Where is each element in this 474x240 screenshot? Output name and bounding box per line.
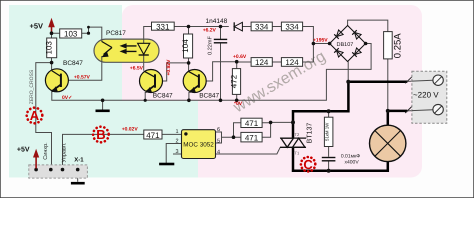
svg-text:1n4148: 1n4148	[206, 18, 228, 25]
svg-text:*0V: *0V	[234, 101, 243, 107]
svg-text:+0.92V: +0.92V	[166, 59, 172, 76]
svg-text:0.22mF: 0.22mF	[208, 36, 214, 55]
svg-text:B: B	[96, 127, 105, 142]
svg-text:T1: T1	[295, 151, 300, 156]
svg-text:+6.5V: +6.5V	[130, 65, 144, 71]
svg-text:+5V: +5V	[17, 147, 30, 154]
svg-text:BC847: BC847	[63, 60, 83, 67]
svg-text:BC847: BC847	[153, 93, 173, 100]
svg-text:T2: T2	[295, 132, 300, 137]
svg-text:+6.2V: +6.2V	[203, 28, 217, 34]
svg-text:51кМ 1W: 51кМ 1W	[325, 122, 330, 141]
svg-text:Синхр.: Синхр.	[43, 142, 49, 160]
svg-text:A: A	[30, 108, 40, 123]
svg-text:Управл.: Управл.	[62, 142, 68, 162]
svg-text:104: 104	[181, 39, 190, 53]
svg-text:х400V: х400V	[345, 159, 360, 165]
svg-text:+5V: +5V	[30, 22, 44, 31]
svg-text:BT137: BT137	[307, 123, 314, 144]
svg-text:5: 5	[217, 139, 220, 145]
svg-text:103: 103	[45, 41, 54, 55]
svg-text:103: 103	[64, 29, 78, 38]
svg-text:471: 471	[245, 119, 259, 128]
svg-text:+0.6V: +0.6V	[233, 54, 247, 60]
svg-text:2: 2	[175, 139, 178, 145]
svg-text:0V✓: 0V✓	[62, 95, 72, 101]
svg-text:ZERO_CROSS: ZERO_CROSS	[29, 69, 35, 104]
svg-text:X-1: X-1	[74, 156, 84, 163]
svg-text:BC847: BC847	[199, 93, 219, 100]
svg-text:DB107: DB107	[337, 42, 354, 48]
svg-text:331: 331	[156, 22, 170, 31]
svg-text:PC817: PC817	[106, 30, 126, 37]
svg-text:4: 4	[217, 149, 220, 155]
svg-text:6: 6	[217, 127, 220, 133]
svg-text:471: 471	[146, 131, 160, 140]
svg-text:MOC 3052: MOC 3052	[183, 142, 214, 149]
svg-text:124: 124	[285, 58, 299, 67]
svg-text:+0.57V: +0.57V	[74, 74, 91, 80]
svg-text:471: 471	[245, 134, 259, 143]
svg-text:334: 334	[255, 23, 269, 32]
svg-text:+195V: +195V	[313, 37, 328, 43]
svg-text:3: 3	[175, 149, 178, 155]
svg-text:124: 124	[255, 58, 269, 67]
svg-text:C: C	[303, 157, 313, 172]
svg-text:1: 1	[175, 129, 178, 135]
svg-text:+0.02V: +0.02V	[122, 126, 139, 132]
svg-text:334: 334	[285, 23, 299, 32]
svg-text:0.25A: 0.25A	[393, 33, 404, 58]
svg-text:472: 472	[230, 74, 239, 88]
svg-text:~220 V: ~220 V	[413, 90, 439, 99]
